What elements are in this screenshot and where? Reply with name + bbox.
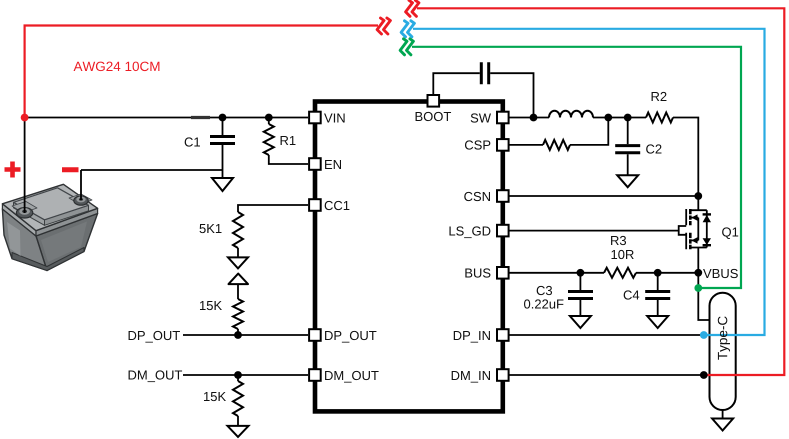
label DM_OUT	[129, 370, 183, 382]
wire DP_OUT	[183, 334, 308, 336]
node green junction VBUS	[694, 284, 702, 292]
pin CSN	[497, 190, 509, 202]
wire VIN net horizontal	[25, 117, 308, 119]
resistor R1	[264, 124, 274, 155]
wire LS_GD to Q1 gate	[509, 230, 679, 232]
wire R2 to CSN node	[673, 118, 698, 197]
node 15K/DP_OUT	[234, 331, 242, 339]
wire inductor to R2	[593, 117, 646, 119]
label DP_OUT	[325, 331, 376, 343]
wire SW to inductor	[509, 117, 549, 119]
label DM_OUT	[325, 371, 379, 383]
capacitor boot C5	[481, 62, 488, 84]
pin DP_IN	[497, 329, 509, 341]
capacitor C2	[615, 146, 640, 153]
pin DM_OUT	[309, 369, 321, 381]
label Q1	[722, 227, 738, 239]
label DP_OUT	[129, 331, 180, 343]
label DM_IN	[452, 371, 490, 383]
label C3	[537, 286, 552, 295]
wire DM_OUT	[183, 374, 308, 376]
pin DM_IN	[497, 369, 509, 381]
label AWG24 10CM	[74, 62, 160, 72]
op-amp U1 main IC body	[315, 102, 503, 412]
wire shunt dash on VIN net	[191, 116, 210, 119]
node 15K/DM_OUT	[234, 371, 242, 379]
label VIN	[324, 114, 345, 123]
resistor R3	[604, 268, 636, 278]
wire Type-C ground stem	[722, 410, 724, 419]
node cyan junction DP_IN	[700, 331, 708, 339]
label R2	[652, 92, 667, 101]
label BUS	[465, 268, 490, 277]
wire break green	[400, 39, 407, 55]
pin BOOT	[428, 95, 440, 107]
wire VBUS to Type-C	[698, 248, 710, 321]
wire battery plus vertical to VIN net	[24, 118, 26, 214]
wire CSP branch	[509, 118, 608, 145]
transistor Q1	[679, 196, 707, 249]
label EN	[325, 160, 341, 169]
label CSN	[464, 192, 490, 201]
label 15K	[204, 392, 226, 401]
battery minus symbol	[62, 167, 79, 172]
label Type-C	[718, 316, 730, 359]
pin SW	[497, 112, 509, 124]
wire green to VBUS	[412, 47, 741, 288]
node CSP-branch/SW	[604, 114, 612, 122]
label BOOT	[416, 112, 451, 121]
capacitor C1	[210, 137, 235, 144]
label C1	[185, 137, 200, 146]
resistor R2	[646, 113, 673, 123]
node C1/VIN	[219, 114, 227, 122]
wire C1 stems	[222, 118, 224, 179]
wire BUS / VBUS net	[509, 272, 698, 274]
wire break red left	[377, 18, 384, 34]
label C2	[646, 144, 661, 153]
wire DM_IN	[509, 374, 704, 376]
ground arrow below 5K1	[228, 257, 248, 268]
node DM_IN/Type-C	[700, 371, 708, 379]
resistor CSP sense	[543, 140, 570, 150]
wire 15K2 stems	[237, 375, 239, 426]
node C3/BUS	[577, 269, 585, 277]
pin BUS	[497, 267, 509, 279]
node R1/VIN	[265, 114, 273, 122]
label SW	[471, 113, 491, 122]
wire DP_IN	[509, 334, 704, 336]
inductor L1	[549, 111, 593, 118]
pin CSP	[497, 139, 509, 151]
label 10R	[611, 250, 633, 259]
wire C4 stems	[657, 273, 659, 316]
wire C3 stems	[579, 273, 581, 316]
label 5K1	[200, 224, 222, 233]
wire CSN	[509, 195, 698, 197]
wire break red right	[406, 0, 413, 16]
ground below 15K lower	[228, 426, 249, 437]
label R1	[281, 136, 296, 145]
node VBUS	[694, 269, 702, 277]
wire R1 to EN	[269, 118, 308, 165]
capacitor C4	[645, 292, 670, 299]
pin EN	[309, 158, 321, 170]
pin DP_OUT	[309, 329, 321, 341]
label LS_GD	[449, 226, 490, 238]
connector Type-C	[710, 293, 736, 410]
wire CC1 to 5K1	[238, 205, 308, 212]
label DP_IN	[454, 331, 490, 343]
wire break cyan	[401, 21, 408, 37]
label CC1	[325, 201, 350, 210]
resistor 15K lower	[233, 381, 243, 416]
battery BT1	[2, 184, 97, 270]
pin VIN	[309, 112, 321, 124]
node red junction at battery plus	[21, 114, 29, 122]
wire cyan to DP_IN	[413, 29, 765, 335]
resistor 5K1	[233, 212, 243, 248]
wire red to DM_IN	[417, 8, 784, 375]
label R3	[611, 236, 626, 245]
battery plus symbol	[5, 162, 21, 178]
arrow up above 15K	[229, 274, 249, 285]
label CSP	[465, 140, 490, 149]
node CSN/R2/Q1	[694, 192, 702, 200]
label 0.22uF	[524, 299, 563, 308]
pin CC1	[309, 199, 321, 211]
capacitor C3	[568, 292, 593, 299]
node C2/SW	[624, 114, 632, 122]
label VBUS	[703, 269, 738, 278]
node C4/BUS	[654, 269, 662, 277]
label C4	[624, 290, 640, 299]
pin LS_GD	[497, 225, 509, 237]
resistor 15K upper	[233, 299, 243, 329]
wire C2 stems	[627, 118, 629, 176]
wire AWG24 red from battery plus	[25, 26, 378, 119]
node BOOT-cap/SW	[530, 114, 538, 122]
wire BOOT to boot cap to SW	[433, 73, 533, 117]
label 15K	[200, 301, 222, 310]
wire battery minus to ground stem	[81, 170, 223, 200]
wire up-arrow to 15K to DP_OUT	[237, 284, 239, 335]
wire 5K1 to ground arrow	[237, 248, 239, 257]
